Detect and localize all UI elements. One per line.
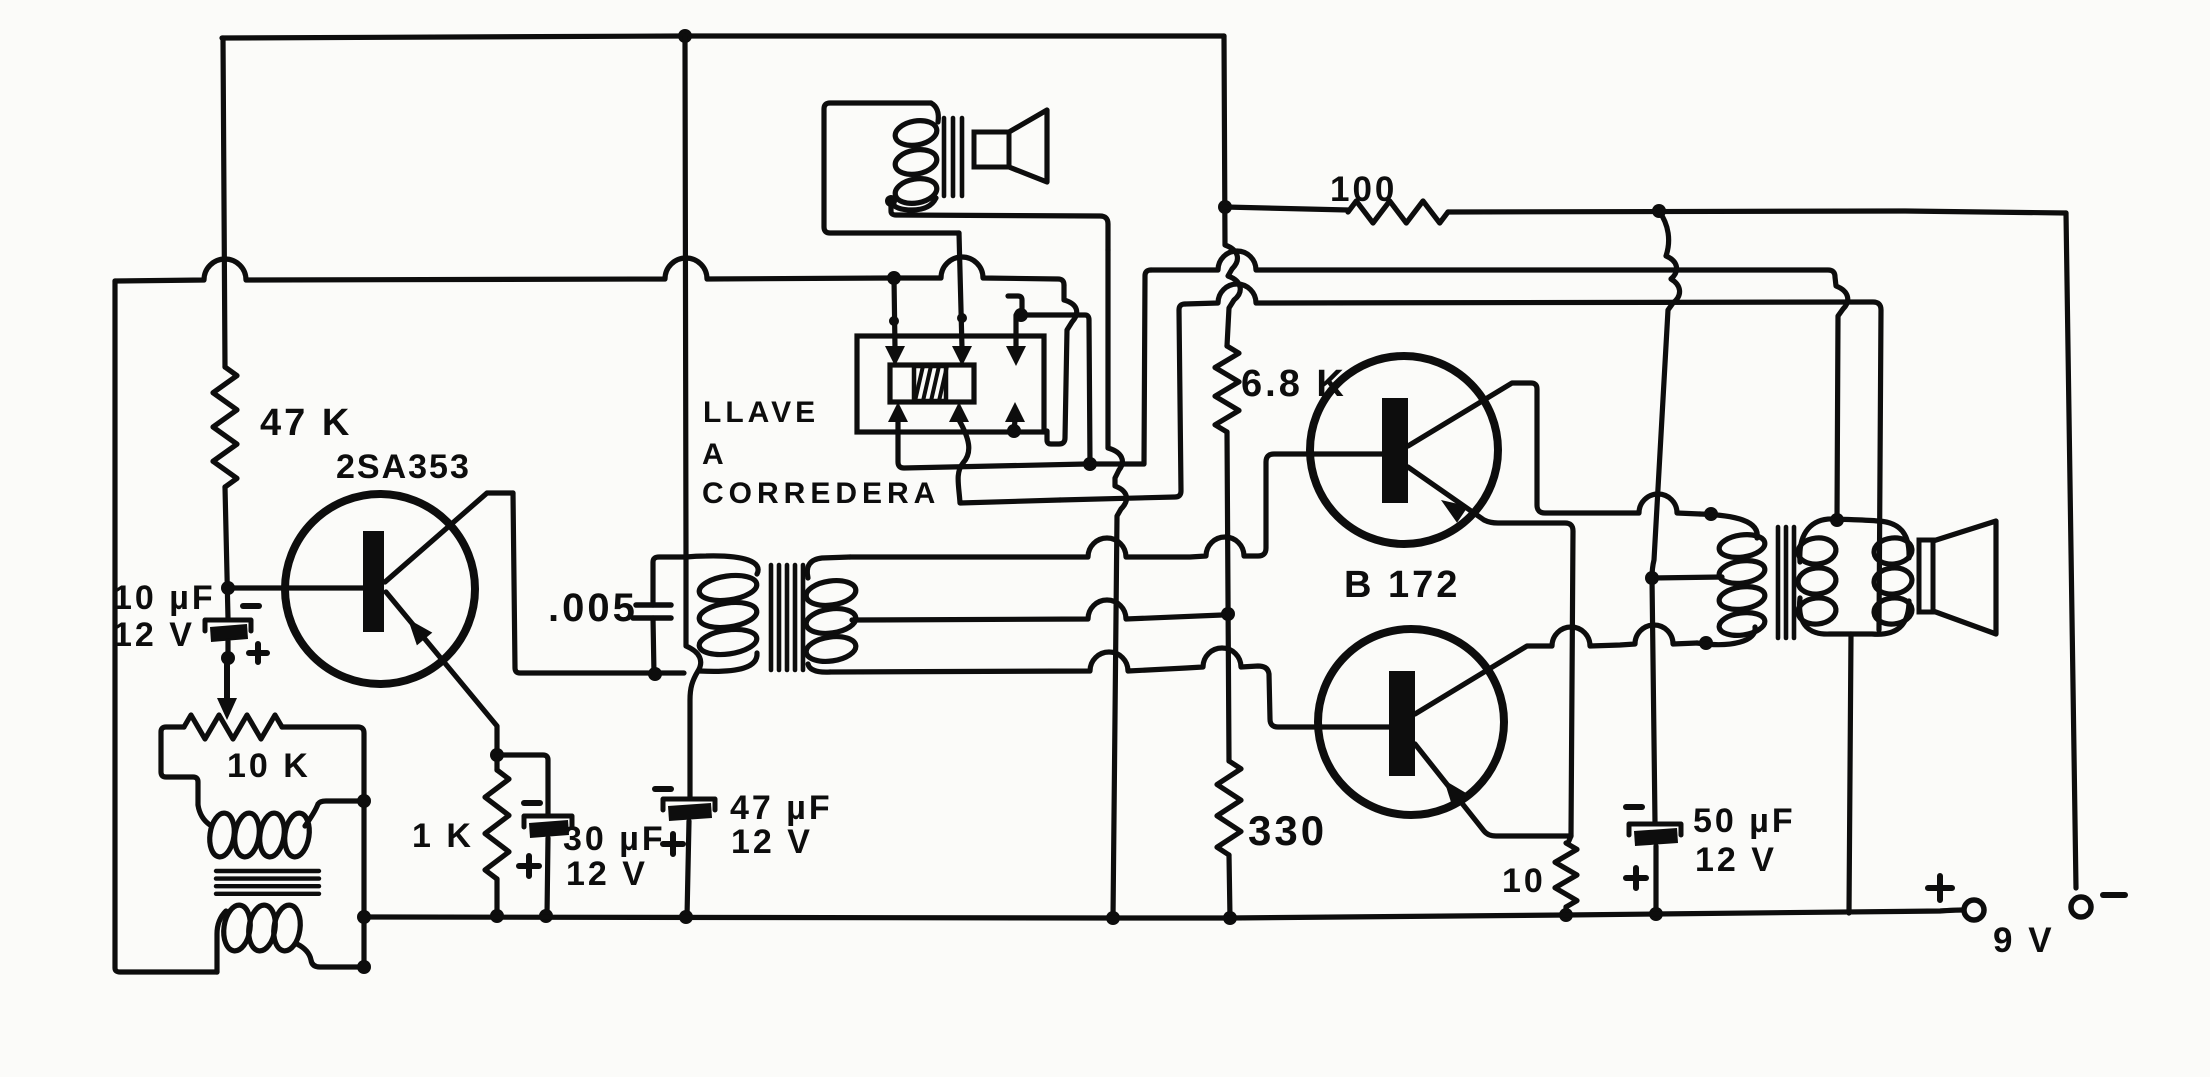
capacitor C3 .005 plates <box>633 605 671 618</box>
node T2 centre tap <box>1645 571 1659 585</box>
label 47 K <box>260 402 352 444</box>
transformer T0 secondary loop 3 <box>271 903 303 952</box>
wire T2 secondary bottom lead to rail <box>1849 634 1851 913</box>
label .005 <box>548 586 638 630</box>
node rail left end <box>357 910 371 924</box>
resistor R1 47 K <box>213 367 237 487</box>
transformer T0 primary loop 3 <box>257 812 287 859</box>
transformer T2 secondary outline <box>1800 519 1909 634</box>
transformer T0 secondary right lead <box>297 944 364 967</box>
speaker SP1 horn <box>1009 110 1047 182</box>
wire bottom contact 1 lead <box>898 420 1086 468</box>
svg-text:47 K: 47 K <box>260 402 352 444</box>
resistor R3 6.8 K <box>1215 346 1239 432</box>
wire 47uF bottom lead <box>687 821 689 917</box>
svg-text:47 µF: 47 µF <box>730 789 833 827</box>
wire second rail (left horizontal bus) <box>115 257 1064 285</box>
transformer T1 primary bottom lead <box>700 653 757 671</box>
wire top supply rail <box>222 36 1224 38</box>
transformer T2 primary top lead <box>1700 514 1757 538</box>
speaker SP1 core <box>944 118 962 196</box>
label A <box>702 438 730 471</box>
wire 50uF bottom lead <box>1653 846 1658 914</box>
potentiometer 10 K track <box>184 715 282 739</box>
wire emitters to 10 ohm <box>1568 836 1571 843</box>
terminal battery plus circle <box>1964 900 1984 920</box>
transformer T0 secondary left lead <box>217 911 226 972</box>
capacitor C1 10 uF electrolytic <box>205 620 251 642</box>
wire bottom contact 3 stub <box>1014 420 1015 431</box>
speaker SP1 coil loop 1 <box>893 118 939 149</box>
wire 6.8K to 330 <box>1227 432 1229 761</box>
label 1 K <box>412 817 474 855</box>
node SP1 coil exit blob <box>885 195 897 207</box>
transformer T0 primary loop 2 <box>232 812 262 859</box>
resistor R4 330 <box>1217 761 1241 855</box>
wire T1 secondary top line to Q2 base <box>850 454 1382 557</box>
wire switch top contact 1 <box>894 278 895 348</box>
transformer T2 secondary loop R2 <box>1873 566 1914 596</box>
label 12 V under 30uF <box>566 855 648 893</box>
label 2SA353 <box>336 448 471 486</box>
transistor Q1 base bar <box>363 531 384 632</box>
svg-text:CORREDERA: CORREDERA <box>702 477 940 510</box>
wire 50uF top lead <box>1652 578 1655 822</box>
transformer T1 core <box>771 565 803 670</box>
wire wiper arrow shaft <box>224 658 230 702</box>
transformer T1 secondary loop 2 <box>805 606 858 637</box>
wire Q3 emitter <box>1415 744 1571 836</box>
speaker SP1 coil loop 3 <box>893 176 939 207</box>
label 47 uF <box>730 789 833 827</box>
svg-text:LLAVE: LLAVE <box>703 396 819 429</box>
wire rail branch down to switch bottom <box>1047 285 1077 444</box>
switch S1 outer box <box>857 336 1044 432</box>
wire T1 center tap line <box>852 600 1222 620</box>
speaker SP1 coil loop 2 <box>893 147 939 178</box>
node 10 ohm to ground rail <box>1559 908 1573 922</box>
label C4 minus <box>655 786 671 792</box>
node C1 to wiper <box>221 651 235 665</box>
node C3 bottom junction <box>648 667 662 681</box>
svg-text:12 V: 12 V <box>113 616 195 654</box>
label battery minus sign <box>2103 892 2125 898</box>
resistor R6 10 <box>1555 843 1577 907</box>
arrowhead up bottom contact 3 <box>1005 402 1025 422</box>
svg-text:1 K: 1 K <box>412 817 474 855</box>
wire 47K top lead <box>223 38 225 367</box>
arrowhead Q3 emitter (PNP) <box>1444 780 1468 807</box>
arrowhead onto potentiometer wiper <box>217 698 237 720</box>
svg-text:330: 330 <box>1248 807 1327 854</box>
wire T1 secondary bottom line to Q3 base <box>830 648 1389 727</box>
transformer T1 secondary bottom lead <box>808 664 830 672</box>
node T0 primary to right column <box>357 794 371 808</box>
wire middle vertical (supply drop) <box>685 36 701 797</box>
svg-text:10: 10 <box>1502 862 1546 900</box>
wire bottom contact 2 continue <box>1060 304 1185 500</box>
svg-text:12 V: 12 V <box>1695 841 1777 879</box>
node Q3 collector to T2 <box>1699 636 1713 650</box>
svg-text:9 V: 9 V <box>1993 921 2055 960</box>
wire 30uF bottom lead <box>547 838 548 916</box>
transformer T0 primary loop 4 <box>282 812 312 859</box>
label C1 plus <box>249 644 267 662</box>
wire bottom contact 1 continue <box>1090 270 1151 464</box>
label 50 uF <box>1693 802 1796 840</box>
wire 100 line right <box>1448 211 2066 213</box>
node long vertical to ground rail <box>1106 911 1120 925</box>
wire speaker line B (y302) <box>1185 284 1881 630</box>
resistor R2 1 K <box>485 770 509 879</box>
label 10 K <box>227 747 311 785</box>
label CORREDERA <box>702 477 940 510</box>
transformer T2 primary loop 4 <box>1718 610 1767 638</box>
label C1 minus <box>243 603 259 609</box>
wire 100 line left <box>1225 207 1348 210</box>
speaker SP1 coil exit <box>891 198 936 210</box>
wire SP1 to long vertical <box>891 201 1108 250</box>
label B 172 <box>1344 564 1460 606</box>
capacitor C2 30 uF electrolytic <box>524 816 572 838</box>
node bottom wire junction B <box>1083 457 1097 471</box>
transformer T1 secondary top lead <box>807 557 850 578</box>
node 100-line to T2 centre-tap column <box>1652 204 1666 218</box>
label 12 V under 47uF <box>731 823 813 861</box>
speaker SP1 coil entry <box>931 103 938 122</box>
label battery plus sign <box>1928 876 1952 900</box>
label LLAVE <box>703 396 819 429</box>
transistor Q2 base bar <box>1382 398 1408 503</box>
svg-text:30 µF: 30 µF <box>563 820 666 858</box>
label 12 V under 10uF <box>113 616 195 654</box>
label 10 uF <box>113 579 216 617</box>
wire long vertical down to ground <box>1108 250 1127 918</box>
wire Q2 collector <box>1408 383 1700 514</box>
wire contact 3 drop <box>1013 315 1018 348</box>
transformer T2 primary loop 3 <box>1718 584 1767 612</box>
capacitor C5 50 uF electrolytic <box>1629 824 1681 846</box>
speaker SP1 frame <box>824 103 959 233</box>
transformer T0 primary loop 1 <box>207 812 237 859</box>
wire switch top contact 2 (from SP1 frame) <box>959 233 962 348</box>
capacitor C4 47 uF electrolytic <box>663 799 715 821</box>
transformer T2 secondary loop L3 <box>1797 596 1838 626</box>
arrowhead down contact 2 <box>952 346 972 366</box>
node T2 secondary top tap <box>1830 513 1844 527</box>
node top-rail / middle column junction <box>678 29 692 43</box>
node Q1 emitter junction <box>490 748 504 762</box>
transformer T2 secondary loop L1 <box>1797 536 1838 566</box>
transformer T1 primary top lead <box>686 556 758 574</box>
wire Q2 emitter <box>1408 467 1573 836</box>
wire Q1 emitter diagonal <box>386 592 497 755</box>
arrowhead Q1 emitter (PNP) <box>408 619 432 645</box>
wire 330 bottom lead <box>1229 855 1230 918</box>
label C2 plus <box>519 856 539 876</box>
wire 1K leads <box>494 755 499 916</box>
label 30 uF <box>563 820 666 858</box>
transformer T0 secondary loop 1 <box>221 903 253 952</box>
label C5 minus <box>1626 804 1642 810</box>
wire pot right lead <box>282 727 364 967</box>
node 100-line junction <box>1218 200 1232 214</box>
label 100 <box>1330 170 1397 209</box>
transistor Q1 2SA353 circle <box>285 494 475 684</box>
transistor Q3 base bar <box>1389 671 1415 776</box>
label 10 <box>1502 862 1546 900</box>
transformer T2 core <box>1778 527 1794 638</box>
wire switch top contact 3 link <box>1008 296 1090 464</box>
node 1K to ground rail <box>490 909 504 923</box>
wire ground rail <box>364 910 1962 918</box>
label 12 V under 50uF <box>1695 841 1777 879</box>
svg-text:50 µF: 50 µF <box>1693 802 1796 840</box>
svg-text:.005: .005 <box>548 586 638 630</box>
transformer T2 secondary loop R3 <box>1873 596 1914 626</box>
wire Q1 base lead <box>228 585 364 590</box>
label C5 plus <box>1626 868 1646 888</box>
wire Q3 collector <box>1415 625 1697 714</box>
node rail / switch-arm junction <box>887 271 901 285</box>
wire C3 top lead <box>653 557 686 605</box>
speaker SP2 driver rect <box>1919 540 1933 612</box>
node blob on contact 2 <box>957 313 967 323</box>
arrowhead Q2 emitter (PNP) <box>1441 500 1468 523</box>
node 50uF to ground rail <box>1649 907 1663 921</box>
node Q1 base node <box>221 581 235 595</box>
label 6.8 K <box>1241 363 1347 405</box>
svg-text:12 V: 12 V <box>566 855 648 893</box>
switch S1 slider hatched <box>914 366 947 401</box>
transformer T0 primary entry <box>198 805 210 825</box>
wire 47K bottom lead <box>225 487 228 618</box>
svg-text:A: A <box>702 438 730 471</box>
transistor Q3 B172 circle <box>1318 629 1504 815</box>
transformer T2 primary loop 2 <box>1718 558 1767 586</box>
switch S1 inner track <box>890 365 974 402</box>
label C2 minus <box>524 800 540 806</box>
svg-text:10 K: 10 K <box>227 747 311 785</box>
wire C3 bottom lead <box>653 618 654 674</box>
wire emitter to 30uF <box>497 755 548 814</box>
transformer T2 secondary loop L2 <box>1797 566 1838 596</box>
speaker SP2 horn <box>1933 521 1996 634</box>
wire T2 centre tap lead <box>1652 577 1722 578</box>
svg-text:12 V: 12 V <box>731 823 813 861</box>
transformer T1 secondary loop 3 <box>805 634 858 665</box>
wire bottom contact 2 lead (S-shaft) <box>958 420 1060 503</box>
svg-text:2SA353: 2SA353 <box>336 448 471 486</box>
transformer T0 core <box>216 871 319 894</box>
label 330 <box>1248 807 1327 854</box>
node 47uF to ground rail <box>679 910 693 924</box>
transistor Q2 B172 circle <box>1310 356 1498 544</box>
wire T2 centre tap column <box>1652 211 1680 578</box>
arrowhead up bottom contact 1 <box>888 402 908 422</box>
transformer T0 primary exit <box>305 801 364 826</box>
wire left outer branch <box>115 281 217 972</box>
node 30uF to ground rail <box>539 909 553 923</box>
transformer T2 secondary loop R1 <box>1873 536 1914 566</box>
node blob on contact 1 <box>889 316 899 326</box>
node center-tap to 6.8K column <box>1221 607 1235 621</box>
wire C1 bottom stub <box>225 641 230 658</box>
transformer T1 primary loop 1 <box>698 572 759 604</box>
svg-text:100: 100 <box>1330 170 1397 209</box>
svg-text:B 172: B 172 <box>1344 564 1460 606</box>
arrowhead down contact 3 <box>1006 346 1026 366</box>
transformer T0 secondary loop 2 <box>246 903 278 952</box>
transformer T1 primary loop 2 <box>698 599 759 631</box>
node switch bottom-edge junction <box>1007 424 1021 438</box>
wire pot left lead step <box>161 727 198 805</box>
svg-text:10 µF: 10 µF <box>113 579 216 617</box>
transformer T1 primary loop 3 <box>698 626 759 658</box>
wire Q1 collector drop <box>513 493 684 673</box>
wire 10 ohm bottom <box>1563 907 1568 915</box>
label C4 plus <box>663 834 683 854</box>
node T0 secondary to right column <box>357 960 371 974</box>
node contact-3 link junction <box>1014 308 1028 322</box>
wire speaker line A (y270) <box>1151 251 1848 520</box>
node 330 to ground rail <box>1223 911 1237 925</box>
arrowhead down contact 1 <box>885 346 905 366</box>
wire right column vertical <box>1224 36 1240 346</box>
resistor R5 100 (horizontal) <box>1348 201 1448 223</box>
arrowhead up bottom contact 2 <box>949 402 969 422</box>
wire far right vertical to battery minus <box>2066 213 2076 888</box>
transformer T1 secondary loop 1 <box>805 578 858 609</box>
svg-text:6.8 K: 6.8 K <box>1241 363 1347 405</box>
label 9 V <box>1993 921 2055 960</box>
node Q2 collector to T2 <box>1704 507 1718 521</box>
speaker SP1 driver rect <box>974 132 1009 167</box>
wire Q1 collector diagonal <box>385 493 513 582</box>
terminal battery minus circle <box>2071 897 2091 917</box>
transformer T2 primary loop 1 <box>1718 532 1767 560</box>
transformer T2 primary bottom lead <box>1697 627 1755 645</box>
